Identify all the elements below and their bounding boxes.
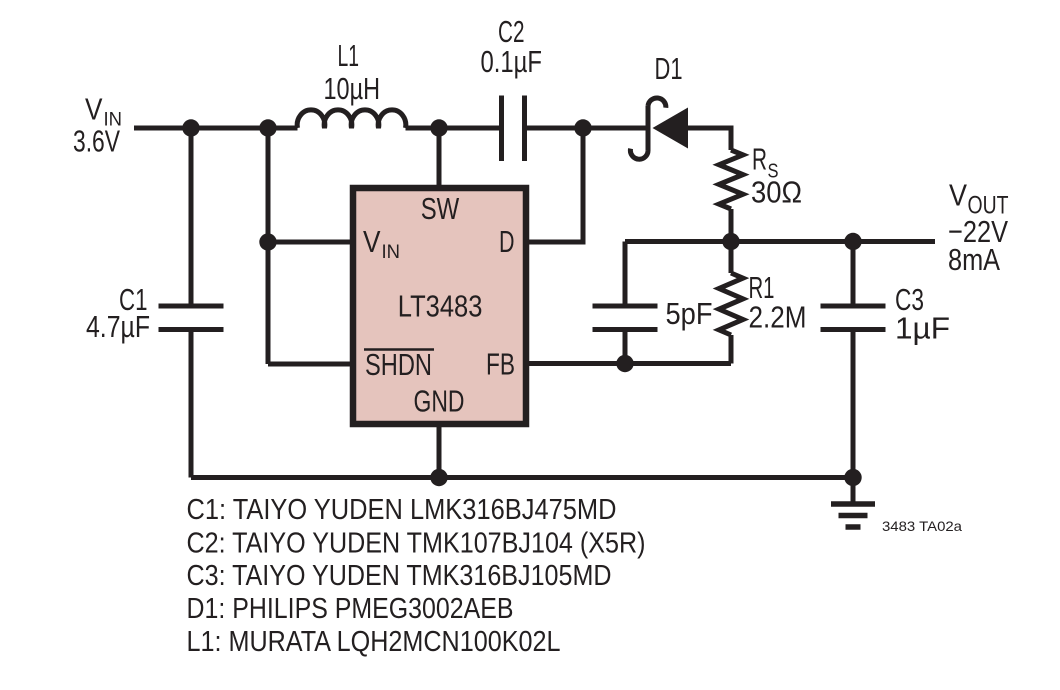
node dot SW xyxy=(430,119,447,136)
node dot RS/R1 xyxy=(722,233,739,250)
wire C2 to diode xyxy=(527,126,648,131)
svg-text:D1: D1 xyxy=(655,51,683,86)
svg-text:5pF: 5pF xyxy=(666,296,713,331)
capacitor C2 right plate xyxy=(522,96,527,162)
diode D1 cathode curl xyxy=(630,98,665,159)
capacitor C3 top plate xyxy=(821,304,886,309)
svg-text:4.7µF: 4.7µF xyxy=(86,309,150,344)
wire C3 to ground rail xyxy=(851,330,856,478)
ground symbol bar 3 xyxy=(846,524,861,530)
svg-text:3.6V: 3.6V xyxy=(73,124,120,159)
resistor R1 zigzag xyxy=(719,273,743,335)
wire SW stub xyxy=(437,128,442,186)
svg-text:LT3483: LT3483 xyxy=(398,288,483,323)
svg-text:D1: PHILIPS PMEG3002AEB: D1: PHILIPS PMEG3002AEB xyxy=(187,593,514,625)
svg-text:GND: GND xyxy=(414,384,465,419)
svg-text:V: V xyxy=(363,224,381,259)
wire R1 bottom to FB line xyxy=(729,335,734,364)
node dot C3 ground xyxy=(844,469,861,486)
svg-text:V: V xyxy=(949,178,967,213)
wire FB line xyxy=(526,361,731,366)
capacitor 5pF bottom plate xyxy=(593,327,658,332)
svg-text:10µH: 10µH xyxy=(324,71,381,106)
wire output rail xyxy=(625,239,935,244)
op-amp U1 LT3483 IC body xyxy=(353,188,526,424)
ground symbol bar 2 xyxy=(839,513,868,519)
svg-text:2.2M: 2.2M xyxy=(749,300,807,335)
capacitor C2 left plate xyxy=(499,96,504,162)
wire second column down xyxy=(266,128,271,364)
svg-text:IN: IN xyxy=(382,242,401,263)
node dot FB/5pF xyxy=(616,355,633,372)
node dot C2/D xyxy=(574,119,591,136)
svg-text:L1: MURATA LQH2MCN100K02L: L1: MURATA LQH2MCN100K02L xyxy=(187,626,561,658)
svg-text:L1: L1 xyxy=(338,38,360,73)
svg-text:FB: FB xyxy=(486,347,515,382)
wire inductor to C2 xyxy=(406,126,500,131)
node dot VIN rail 2 xyxy=(259,119,276,136)
node dot GND rail xyxy=(430,469,447,486)
wire rail corner down to 5pF xyxy=(623,242,628,307)
wire 5pF to FB line xyxy=(623,330,628,364)
ground symbol stub xyxy=(851,478,856,502)
resistor RS zigzag xyxy=(719,150,743,209)
wire D pin to corner up xyxy=(526,128,583,242)
wire GND stub xyxy=(437,426,442,478)
svg-text:8mA: 8mA xyxy=(948,242,1000,277)
capacitor C3 bottom plate xyxy=(821,327,886,332)
capacitor 5pF top plate xyxy=(593,304,658,309)
svg-text:30Ω: 30Ω xyxy=(751,174,802,209)
pin label SHDN overbar xyxy=(364,348,434,351)
node dot VIN pin xyxy=(259,233,276,250)
diode D1 triangle xyxy=(653,108,689,149)
svg-text:D: D xyxy=(499,224,515,259)
svg-text:V: V xyxy=(85,92,103,127)
ground symbol bar 1 xyxy=(831,501,875,507)
svg-text:SHDN: SHDN xyxy=(365,347,432,382)
wire rail to C3 xyxy=(851,242,856,307)
wire rail to R1 xyxy=(729,242,734,274)
wire to VIN pin xyxy=(268,240,352,245)
svg-text:C1: TAIYO YUDEN LMK316BJ475MD: C1: TAIYO YUDEN LMK316BJ475MD xyxy=(187,494,617,526)
svg-text:3483 TA02a: 3483 TA02a xyxy=(882,518,962,534)
capacitor C1 bottom plate xyxy=(159,327,224,332)
svg-text:SW: SW xyxy=(421,191,460,226)
svg-text:1µF: 1µF xyxy=(895,311,950,346)
node dot C3 rail xyxy=(844,233,861,250)
wire RS to output rail xyxy=(729,209,734,242)
svg-text:0.1µF: 0.1µF xyxy=(481,44,543,79)
wire VIN node down to C1 xyxy=(189,128,194,306)
wire ground rail xyxy=(191,475,853,480)
svg-text:R: R xyxy=(752,142,767,177)
capacitor C1 top plate xyxy=(159,304,224,309)
wire top rail left xyxy=(134,126,298,131)
wire to SHDN pin xyxy=(268,362,352,367)
wire C1 to ground rail xyxy=(189,330,194,478)
wire diode to corner xyxy=(688,128,731,150)
svg-text:C3: TAIYO YUDEN TMK316BJ105MD: C3: TAIYO YUDEN TMK316BJ105MD xyxy=(187,560,612,592)
inductor L1 xyxy=(297,110,406,128)
svg-text:C2: TAIYO YUDEN TMK107BJ104 (X: C2: TAIYO YUDEN TMK107BJ104 (X5R) xyxy=(187,528,646,560)
node dot VIN rail 1 xyxy=(182,119,199,136)
